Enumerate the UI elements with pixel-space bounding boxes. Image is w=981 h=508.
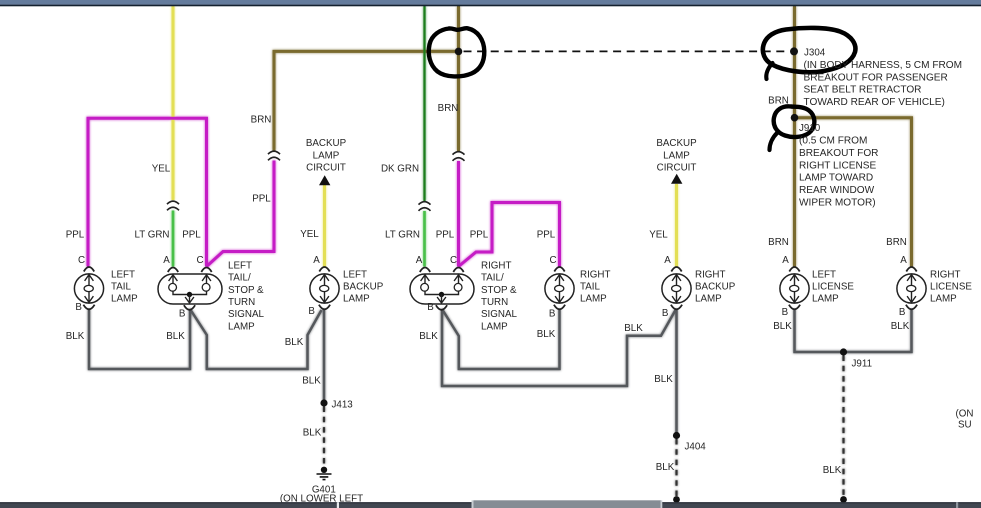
- svg-text:A: A: [313, 255, 320, 266]
- svg-text:C: C: [450, 255, 457, 266]
- splice J413: [320, 399, 327, 406]
- wire PPL below connector C274 to lamp2C: [207, 161, 275, 267]
- svg-text:LAMP: LAMP: [228, 321, 255, 332]
- svg-text:BLK: BLK: [303, 428, 322, 439]
- svg-text:J404: J404: [685, 441, 707, 452]
- wire BRN from J910 to lamp8 A: [795, 118, 912, 267]
- svg-text:SU: SU: [958, 420, 972, 431]
- svg-text:BLK: BLK: [823, 465, 842, 476]
- svg-text:YEL: YEL: [300, 229, 319, 240]
- wire BLK dashed J911 down: [842, 356, 844, 499]
- annotation circle around brown splice: [429, 28, 485, 76]
- wire BLK lamp4B to lamp6B: [442, 309, 676, 386]
- svg-text:A: A: [416, 255, 423, 266]
- svg-text:B: B: [782, 307, 789, 318]
- svg-text:BRN: BRN: [886, 237, 907, 248]
- svg-text:BLK: BLK: [773, 321, 792, 332]
- svg-text:STOP &: STOP &: [481, 285, 517, 296]
- wire DK GRN from top: [423, 6, 425, 201]
- svg-text:LICENSE: LICENSE: [930, 282, 972, 293]
- annotation circle around J304 with tail: [763, 28, 856, 72]
- svg-text:TAIL: TAIL: [111, 282, 132, 293]
- dashed link splice to J304: [464, 50, 789, 52]
- svg-text:J911: J911: [852, 359, 873, 370]
- svg-text:BACKUP: BACKUP: [656, 138, 697, 149]
- wire LT GRN to lamp4 pin A: [423, 211, 426, 267]
- wire BRN from splice to connector C274: [274, 51, 457, 150]
- svg-text:LEFT: LEFT: [111, 269, 135, 280]
- wire BLK dashed J413 to G401: [323, 407, 325, 465]
- svg-text:PPL: PPL: [182, 230, 201, 241]
- splice J910: [791, 114, 799, 122]
- svg-text:LAMP: LAMP: [930, 294, 957, 305]
- wire BLK lamp1B to lamp2B: [89, 309, 190, 369]
- svg-text:BRN: BRN: [251, 115, 272, 126]
- svg-text:BLK: BLK: [66, 331, 85, 342]
- svg-text:PPL: PPL: [436, 230, 455, 241]
- lamp L6 RIGHT BACKUP LAMP: [662, 267, 691, 309]
- node end of J911 dashed wire: [840, 496, 847, 503]
- svg-text:B: B: [75, 302, 82, 313]
- svg-text:BACKUP: BACKUP: [695, 282, 736, 293]
- svg-text:B: B: [179, 309, 186, 320]
- svg-text:RIGHT: RIGHT: [580, 269, 610, 280]
- wire YEL right backup lamp: [675, 184, 678, 267]
- svg-text:J304: J304: [804, 48, 826, 59]
- svg-text:PPL: PPL: [470, 230, 489, 241]
- svg-text:LAMP: LAMP: [812, 294, 839, 305]
- svg-text:BACKUP: BACKUP: [343, 282, 384, 293]
- splice J911: [840, 348, 847, 355]
- svg-text:TURN: TURN: [481, 297, 508, 308]
- svg-text:BRN: BRN: [768, 237, 789, 248]
- svg-text:J413: J413: [332, 400, 354, 411]
- svg-text:LT GRN: LT GRN: [134, 230, 169, 241]
- svg-text:STOP &: STOP &: [228, 285, 264, 296]
- svg-text:LEFT: LEFT: [812, 269, 836, 280]
- ground G401: [317, 467, 332, 480]
- svg-text:B: B: [662, 308, 669, 319]
- svg-text:BREAKOUT FOR PASSENGER: BREAKOUT FOR PASSENGER: [804, 72, 948, 83]
- lamp L8 RIGHT LICENSE LAMP: [897, 267, 926, 309]
- wire BLK lamp8B to J911: [844, 309, 912, 352]
- splice J304: [790, 47, 798, 55]
- svg-text:LEFT: LEFT: [228, 260, 252, 271]
- lamp L5 RIGHT TAIL LAMP: [545, 267, 574, 309]
- svg-text:LAMP: LAMP: [481, 321, 508, 332]
- svg-text:TOWARD REAR OF VEHICLE): TOWARD REAR OF VEHICLE): [804, 97, 945, 108]
- top toolbar: [0, 0, 981, 5]
- svg-text:BLK: BLK: [654, 374, 673, 385]
- svg-text:REAR WINDOW: REAR WINDOW: [799, 185, 875, 196]
- svg-text:B: B: [427, 302, 434, 313]
- bottom status bar: [0, 502, 981, 508]
- wire BLK lamp2B to lamp3B: [190, 309, 322, 369]
- splice J404: [673, 432, 680, 439]
- splice node at brown junction: [455, 48, 463, 56]
- wire BLK lamp4B to lamp5B: [442, 309, 560, 369]
- wire BLK lamp3B down to J413: [323, 309, 326, 403]
- svg-text:LAMP: LAMP: [111, 294, 138, 305]
- svg-text:(ON: (ON: [956, 409, 974, 420]
- wire LT GRN to lamp2 pin A: [172, 211, 175, 267]
- node end of J404 dashed wire: [673, 496, 680, 503]
- svg-text:C: C: [196, 255, 203, 266]
- svg-text:TAIL/: TAIL/: [481, 273, 504, 284]
- svg-text:BLK: BLK: [166, 331, 185, 342]
- svg-text:B: B: [308, 306, 315, 317]
- svg-text:C: C: [78, 255, 85, 266]
- svg-text:LT GRN: LT GRN: [385, 230, 420, 241]
- wire BLK lamp6B down to J404: [675, 309, 678, 436]
- svg-text:DK GRN: DK GRN: [381, 164, 419, 175]
- wire BRN from top bar to lamp7 A through J304 and J910: [793, 6, 796, 267]
- svg-text:TAIL: TAIL: [580, 282, 601, 293]
- svg-text:BREAKOUT FOR: BREAKOUT FOR: [799, 148, 878, 159]
- wire PPL below connector C458 to lamp4C: [457, 161, 460, 267]
- svg-text:TURN: TURN: [228, 297, 255, 308]
- connector C1 inline yellow to lt green: [167, 201, 179, 210]
- svg-text:LAMP TOWARD: LAMP TOWARD: [799, 173, 873, 184]
- svg-text:BLK: BLK: [624, 323, 643, 334]
- arrowhead right backup lamp circuit: [671, 174, 682, 184]
- wire YEL backup lamp feed left: [172, 6, 175, 200]
- svg-text:(IN BODY HARNESS, 5 CM FROM: (IN BODY HARNESS, 5 CM FROM: [804, 60, 963, 71]
- svg-text:LEFT: LEFT: [343, 269, 367, 280]
- wire YEL left backup lamp: [323, 185, 326, 267]
- lamp L1 LEFT TAIL LAMP: [74, 267, 103, 309]
- svg-text:SIGNAL: SIGNAL: [481, 309, 517, 320]
- svg-text:LAMP: LAMP: [663, 150, 690, 161]
- svg-text:A: A: [900, 255, 907, 266]
- svg-text:RIGHT LICENSE: RIGHT LICENSE: [799, 160, 876, 171]
- svg-text:RIGHT: RIGHT: [481, 260, 511, 271]
- svg-text:C: C: [549, 255, 556, 266]
- wire PPL jumper lamp4C to lamp5C: [459, 203, 560, 267]
- connector C2 inline brown to purple left: [268, 151, 280, 160]
- svg-text:BLK: BLK: [537, 329, 556, 340]
- svg-text:B: B: [899, 307, 906, 318]
- svg-text:BRN: BRN: [438, 103, 459, 114]
- svg-text:A: A: [782, 255, 789, 266]
- svg-text:BLK: BLK: [656, 462, 675, 473]
- svg-text:B: B: [549, 309, 556, 320]
- svg-text:YEL: YEL: [649, 230, 668, 241]
- svg-text:RIGHT: RIGHT: [695, 269, 725, 280]
- annotation tail stroke J910: [770, 133, 778, 150]
- lamp L4 RIGHT TAIL STOP TURN SIGNAL LAMP: [410, 268, 474, 310]
- lamp L7 LEFT LICENSE LAMP: [780, 267, 809, 309]
- connector C3 inline dk green to lt green: [419, 202, 431, 211]
- svg-text:BLK: BLK: [891, 321, 910, 332]
- svg-text:A: A: [664, 255, 671, 266]
- svg-text:LAMP: LAMP: [313, 150, 340, 161]
- annotation circle around J910 with tail: [774, 106, 815, 137]
- svg-text:PPL: PPL: [252, 194, 271, 205]
- svg-text:YEL: YEL: [152, 164, 171, 175]
- svg-text:J910: J910: [799, 123, 821, 134]
- svg-text:PPL: PPL: [537, 230, 556, 241]
- arrowhead left backup lamp circuit: [319, 175, 330, 185]
- svg-text:LAMP: LAMP: [343, 294, 370, 305]
- svg-text:SEAT BELT RETRACTOR: SEAT BELT RETRACTOR: [804, 85, 922, 96]
- wire BLK dashed J404 down: [675, 439, 677, 498]
- wire BLK lamp7B to J911: [795, 309, 844, 352]
- svg-text:BLK: BLK: [285, 337, 304, 348]
- svg-text:CIRCUIT: CIRCUIT: [657, 162, 697, 173]
- svg-text:WIPER MOTOR): WIPER MOTOR): [799, 198, 876, 209]
- svg-text:SIGNAL: SIGNAL: [228, 309, 264, 320]
- svg-text:BLK: BLK: [419, 331, 438, 342]
- wire BRN from top through splice S458: [457, 6, 460, 151]
- svg-text:BLK: BLK: [302, 376, 321, 387]
- svg-text:CIRCUIT: CIRCUIT: [306, 162, 346, 173]
- svg-text:PPL: PPL: [66, 230, 85, 241]
- svg-text:(0.5 CM FROM: (0.5 CM FROM: [799, 136, 867, 147]
- svg-text:LAMP: LAMP: [580, 294, 607, 305]
- connector C4 inline brown to purple right: [453, 152, 465, 161]
- svg-text:BACKUP: BACKUP: [306, 138, 347, 149]
- svg-text:LAMP: LAMP: [695, 294, 722, 305]
- svg-text:RIGHT: RIGHT: [930, 269, 960, 280]
- svg-text:LICENSE: LICENSE: [812, 282, 854, 293]
- svg-text:A: A: [163, 255, 170, 266]
- lamp L2 LEFT TAIL STOP TURN SIGNAL LAMP: [158, 268, 222, 310]
- annotation tail stroke J304: [766, 63, 772, 79]
- lamp L3 LEFT BACKUP LAMP: [310, 267, 339, 309]
- wire PPL jumper lamp1C to lamp2C: [88, 118, 207, 266]
- svg-text:BRN: BRN: [768, 96, 789, 107]
- svg-text:TAIL/: TAIL/: [228, 273, 251, 284]
